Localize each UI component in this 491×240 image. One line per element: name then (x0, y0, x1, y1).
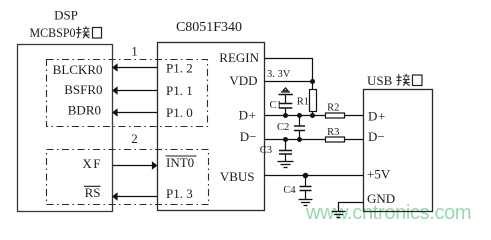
IC U1 C8051F340 box (158, 43, 265, 211)
wire VBUS to +5V rail (265, 175, 364, 177)
svg-text:3. 3V: 3. 3V (267, 69, 291, 80)
node junction C1/D+ (283, 113, 288, 118)
svg-text:VBUS: VBUS (220, 169, 255, 184)
pin label D- (chip) (240, 129, 257, 144)
net group 2 dash-dot outline (47, 150, 209, 205)
svg-text:C1: C1 (270, 100, 282, 111)
capacitor C1 polarized (279, 88, 293, 116)
svg-text:1: 1 (131, 44, 138, 59)
node junction R1/D+ (310, 113, 315, 118)
wire P1.0 to BDR0 with arrow (112, 108, 158, 117)
watermark www.cntronics.com (305, 202, 471, 224)
svg-text:USB: USB (367, 73, 393, 88)
svg-text:2: 2 (131, 131, 138, 146)
label C4 (283, 185, 296, 196)
svg-text:C8051F340: C8051F340 (176, 20, 242, 35)
node label 1 (131, 44, 138, 59)
pin label BDR0 (68, 102, 101, 117)
label MCBSP0接口 (30, 25, 102, 40)
svg-text:P1. 1: P1. 1 (166, 83, 193, 98)
svg-text:DSP: DSP (54, 7, 78, 22)
node junction C2/D- (297, 137, 302, 142)
label R3 (327, 127, 339, 138)
svg-text:VDD: VDD (229, 73, 257, 88)
wire XF to INT0 with arrow (113, 161, 158, 170)
pin label BSFR0 (64, 82, 102, 97)
wire P1.3 to RS with arrow (112, 192, 158, 201)
wire P1.2 to BLCKR0 with arrow (112, 63, 158, 72)
svg-text:BLCKR0: BLCKR0 (53, 62, 103, 77)
label C2 (277, 122, 289, 133)
svg-text:MCBSP0: MCBSP0 (30, 25, 76, 40)
wire VDD rail (265, 81, 313, 83)
pin label BLCKR0 (53, 62, 103, 77)
wire REGIN to 3.3V rail (265, 59, 313, 82)
svg-text:D+: D+ (368, 108, 386, 123)
svg-text:INT0: INT0 (166, 155, 194, 170)
node junction C3/D- (283, 137, 288, 142)
node junction VDD/R1 (310, 79, 315, 84)
label C1 (270, 100, 282, 111)
ground symbol below GND wire (332, 212, 346, 218)
wire P1.1 to BSFR0 with arrow (112, 86, 158, 95)
capacitor C3 (279, 140, 292, 162)
svg-text:R2: R2 (327, 103, 339, 114)
svg-text:C3: C3 (260, 145, 272, 156)
svg-text:XF: XF (82, 156, 102, 171)
pin label VBUS (220, 169, 255, 184)
svg-text:R3: R3 (327, 127, 339, 138)
label R2 (327, 103, 339, 114)
svg-text:GND: GND (367, 191, 395, 206)
pin label RS with overline (84, 185, 101, 200)
wire D- rail (265, 139, 326, 141)
pin label D+ (USB) (368, 108, 386, 123)
pin label GND (367, 191, 395, 206)
label C3 (260, 145, 272, 156)
wire GND from USB connector (339, 203, 364, 212)
ground symbol below C3 (278, 162, 294, 168)
label C8051F340 (176, 20, 242, 35)
label R1 (297, 96, 309, 107)
svg-text:D−: D− (368, 129, 385, 144)
label 3.3V (267, 69, 291, 80)
resistor R2 (326, 113, 364, 118)
svg-text:C2: C2 (277, 122, 289, 133)
pin label D+ (chip) (239, 107, 257, 122)
svg-text:D−: D− (240, 129, 257, 144)
capacitor C2 (294, 116, 305, 140)
svg-text:+5V: +5V (367, 167, 391, 182)
pin label XF (82, 156, 102, 171)
box DSP MCBSP0 interface (18, 45, 113, 212)
pin label +5V (367, 167, 391, 182)
node junction C4/+5V (303, 173, 309, 179)
svg-text:P1. 3: P1. 3 (166, 186, 193, 201)
svg-text:P1. 0: P1. 0 (166, 105, 193, 120)
resistor R3 (326, 137, 364, 142)
svg-text:D+: D+ (239, 107, 257, 122)
label DSP (54, 7, 78, 22)
capacitor C4 (300, 176, 312, 200)
svg-text:R1: R1 (297, 96, 309, 107)
ground symbol below C4 (299, 200, 313, 206)
node label 2 (131, 131, 138, 146)
svg-text:BDR0: BDR0 (68, 102, 101, 117)
pin label INT0 with overline (166, 155, 197, 170)
svg-text:C4: C4 (283, 185, 296, 196)
svg-text:REGIN: REGIN (219, 50, 259, 65)
pin label P1.3 (166, 186, 193, 201)
resistor R1 (310, 82, 317, 116)
node junction C2/D+ (297, 113, 302, 118)
wire D+ rail (265, 115, 326, 117)
label USB接口 (367, 73, 422, 88)
svg-text:P1. 2: P1. 2 (166, 60, 193, 75)
pin label REGIN (219, 50, 259, 65)
connector J1 USB box (364, 90, 433, 212)
pin label P1.0 (166, 105, 193, 120)
svg-text:RS: RS (85, 185, 101, 200)
pin label P1.1 (166, 83, 193, 98)
svg-text:BSFR0: BSFR0 (64, 82, 102, 97)
net group 1 dash-dot outline (47, 60, 208, 127)
pin label D- (USB) (368, 129, 385, 144)
pin label VDD (229, 73, 257, 88)
pin label P1.2 (166, 60, 193, 75)
